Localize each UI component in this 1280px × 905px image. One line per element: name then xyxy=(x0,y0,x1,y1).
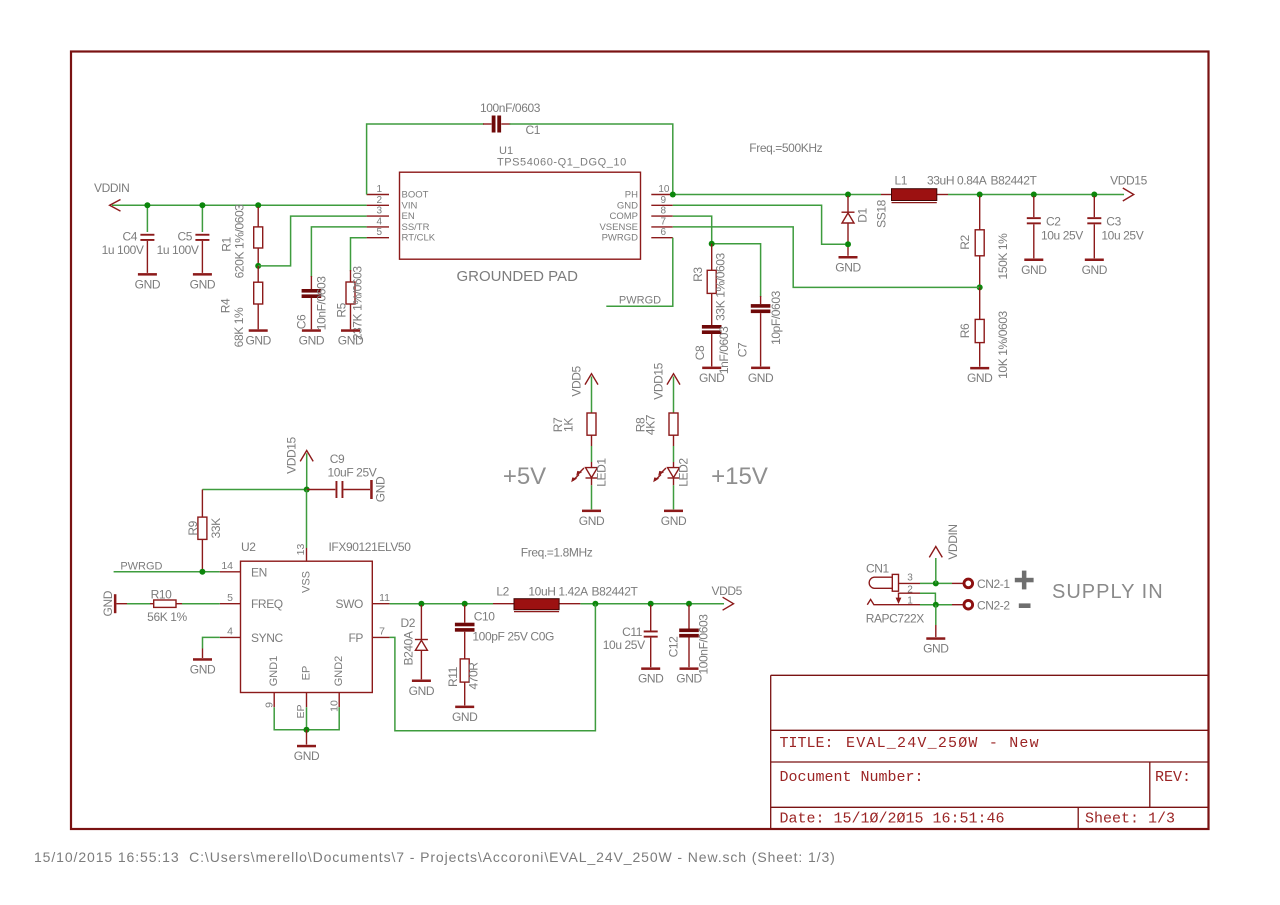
svg-text:CN2-2: CN2-2 xyxy=(977,598,1010,612)
diode D1 SS18 xyxy=(842,196,889,256)
U2 pin 11 SWO xyxy=(336,592,391,611)
svg-text:3: 3 xyxy=(907,573,913,584)
svg-text:SWO: SWO xyxy=(336,597,364,611)
resistor R8 xyxy=(633,413,678,468)
svg-text:R11: R11 xyxy=(446,666,460,687)
svg-text:PWRGD: PWRGD xyxy=(602,233,639,244)
svg-text:470R: 470R xyxy=(467,662,481,690)
ground D1 xyxy=(835,256,861,274)
svg-text:10uF 25V: 10uF 25V xyxy=(328,466,377,480)
U1 pin 7 VSENSE xyxy=(599,216,672,233)
svg-text:10pF/0603: 10pF/0603 xyxy=(769,290,783,345)
resistor R10 xyxy=(116,587,219,624)
svg-text:33uH 0.84A: 33uH 0.84A xyxy=(927,174,987,188)
svg-text:R6: R6 xyxy=(958,323,972,338)
ground EP xyxy=(294,730,320,763)
CN1 pin 1 xyxy=(867,596,920,607)
resistor R1 xyxy=(220,204,263,279)
svg-text:U1: U1 xyxy=(499,145,513,157)
resistor R2 xyxy=(958,196,1010,287)
ground D2 xyxy=(409,680,435,698)
svg-text:620K 1%/0603: 620K 1%/0603 xyxy=(233,204,247,279)
svg-text:GND: GND xyxy=(638,672,664,686)
svg-text:PWRGD: PWRGD xyxy=(120,560,162,572)
svg-text:GND: GND xyxy=(579,514,605,528)
svg-text:GND: GND xyxy=(338,334,364,348)
svg-text:PH: PH xyxy=(625,190,638,201)
svg-text:GND: GND xyxy=(1082,263,1108,277)
ground CN1 xyxy=(923,637,949,655)
minus symbol xyxy=(1019,603,1031,608)
svg-text:B240A: B240A xyxy=(402,631,416,665)
wire SYNC to GND xyxy=(203,637,220,648)
junction VDDIN dots xyxy=(144,202,261,208)
CN1 pin 2 with switch arrow xyxy=(896,584,920,604)
svg-text:GND: GND xyxy=(299,334,325,348)
svg-text:68K 1%: 68K 1% xyxy=(232,307,246,347)
svg-text:RT/CLK: RT/CLK xyxy=(402,233,436,244)
svg-text:9: 9 xyxy=(660,195,666,206)
svg-text:237K 1%/0603: 237K 1%/0603 xyxy=(351,266,365,341)
svg-text:FREQ: FREQ xyxy=(251,597,283,611)
svg-text:+5V: +5V xyxy=(503,463,546,490)
svg-text:VDD15: VDD15 xyxy=(651,362,665,399)
svg-text:U2: U2 xyxy=(241,540,256,554)
svg-text:5: 5 xyxy=(376,227,382,238)
svg-text:GND: GND xyxy=(923,642,949,656)
node VDDIN arrow CN1 xyxy=(929,524,960,583)
svg-text:GND: GND xyxy=(373,476,387,502)
svg-text:D2: D2 xyxy=(400,616,415,630)
svg-text:R2: R2 xyxy=(958,235,972,250)
border frame xyxy=(71,52,1209,830)
svg-text:10nF/0603: 10nF/0603 xyxy=(315,276,329,331)
capacitor C4 xyxy=(102,230,155,273)
svg-text:IFX90121ELV50: IFX90121ELV50 xyxy=(329,540,412,554)
svg-text:EVAL_24V_25ØW - New: EVAL_24V_25ØW - New xyxy=(846,735,1040,752)
U2 pin 4 SYNC xyxy=(220,626,284,645)
junction R9-EN node xyxy=(199,569,205,575)
node VDD15 arrow LED2 xyxy=(651,362,680,399)
resistor R7 xyxy=(551,413,596,468)
svg-text:56K 1%: 56K 1% xyxy=(147,610,187,624)
capacitor C1 xyxy=(480,101,541,137)
junction R2-R6 node xyxy=(977,284,983,290)
svg-text:10u 25V: 10u 25V xyxy=(603,638,645,652)
svg-text:C5: C5 xyxy=(177,230,192,244)
resistor R5 xyxy=(335,266,365,341)
wire GND pin9 to D1 xyxy=(673,205,845,244)
svg-text:GND: GND xyxy=(135,277,161,291)
wire SS/TR to C6 xyxy=(311,227,366,277)
svg-text:10u 25V: 10u 25V xyxy=(1041,228,1083,242)
svg-text:R5: R5 xyxy=(335,302,349,317)
svg-text:VDDIN: VDDIN xyxy=(94,181,129,195)
wire FP loop xyxy=(390,604,596,731)
svg-text:REV:: REV: xyxy=(1155,769,1191,786)
svg-text:33K: 33K xyxy=(209,518,223,539)
U1 pin 4 SS/TR xyxy=(367,216,430,233)
svg-text:EP: EP xyxy=(295,704,307,718)
svg-text:GND: GND xyxy=(190,663,216,677)
svg-text:10u 25V: 10u 25V xyxy=(1101,228,1143,242)
pad CN2-2 xyxy=(964,598,1010,612)
svg-text:150K 1%: 150K 1% xyxy=(996,233,1010,280)
U2 pin 5 FREQ xyxy=(220,592,283,611)
junction PH dots xyxy=(670,192,1098,198)
svg-text:Document Number:: Document Number: xyxy=(780,769,924,786)
svg-text:33K 1%/0603: 33K 1%/0603 xyxy=(713,252,727,320)
svg-text:VDD15: VDD15 xyxy=(1110,174,1147,188)
ground R4 xyxy=(245,329,271,347)
svg-text:C12: C12 xyxy=(666,636,680,658)
IC U2 IFX90121ELV50 body xyxy=(241,540,412,693)
wire C4 drop xyxy=(146,205,148,232)
svg-text:15/10/2015 16:55:13 C:\Users\: 15/10/2015 16:55:13 C:\Users\merello\Doc… xyxy=(34,849,836,865)
junction C9 node xyxy=(304,487,310,493)
svg-text:D1: D1 xyxy=(856,208,870,223)
capacitor C5 xyxy=(157,230,210,273)
svg-text:1u 100V: 1u 100V xyxy=(157,243,199,257)
svg-text:CN1: CN1 xyxy=(866,562,890,576)
junction SWO dots xyxy=(418,601,692,607)
ground C3 xyxy=(1082,259,1108,277)
resistor R6 xyxy=(958,287,1010,378)
svg-text:10K 1%/0603: 10K 1%/0603 xyxy=(996,310,1010,378)
svg-text:+15V: +15V xyxy=(711,463,768,490)
wire COMP net xyxy=(673,216,761,297)
LED LED1 xyxy=(571,458,608,510)
svg-text:GND2: GND2 xyxy=(333,656,345,687)
node VDD5 arrow LED1 xyxy=(569,365,598,396)
ground C2 xyxy=(1021,259,1047,277)
junction EP node xyxy=(304,727,310,733)
svg-text:FP: FP xyxy=(348,631,363,645)
svg-text:B82442T: B82442T xyxy=(991,174,1038,188)
svg-text:RAPC722X: RAPC722X xyxy=(866,611,925,625)
svg-text:SUPPLY IN: SUPPLY IN xyxy=(1052,581,1164,603)
capacitor C11 xyxy=(603,605,658,667)
U2 pin 13 VSS xyxy=(295,544,313,594)
U1 pin 10 PH xyxy=(625,184,673,201)
svg-text:VDD5: VDD5 xyxy=(711,584,742,598)
capacitor C8 xyxy=(693,325,731,374)
wire CN1 pin1 to CN2-2 xyxy=(920,604,952,606)
svg-text:C4: C4 xyxy=(122,230,137,244)
svg-text:2: 2 xyxy=(907,584,913,595)
U1 pin 2 VIN xyxy=(367,195,418,212)
ground LED1 xyxy=(579,510,605,528)
svg-text:GND: GND xyxy=(748,371,774,385)
node VDD15 arrow U2 xyxy=(284,436,313,473)
wire CN1 to GND xyxy=(935,605,937,637)
pad CN2-1 xyxy=(964,577,1010,591)
svg-text:SYNC: SYNC xyxy=(251,631,283,645)
resistor R11 xyxy=(446,659,481,706)
svg-text:GND: GND xyxy=(101,590,115,616)
capacitor C7 xyxy=(736,290,783,366)
plus symbol xyxy=(1015,571,1034,590)
wire VDD15 to R8 xyxy=(673,377,675,414)
svg-text:GND: GND xyxy=(835,260,861,274)
svg-text:GND: GND xyxy=(1021,263,1047,277)
svg-text:100nF/0603: 100nF/0603 xyxy=(697,614,711,675)
wire CN1 pin2 jog xyxy=(920,593,935,605)
svg-text:R10: R10 xyxy=(151,587,173,601)
svg-text:5: 5 xyxy=(227,592,233,604)
svg-text:C7: C7 xyxy=(736,342,750,357)
svg-text:C3: C3 xyxy=(1106,214,1121,228)
U1 pin 6 PWRGD xyxy=(602,227,673,244)
ground C6 xyxy=(299,329,325,347)
svg-text:LED2: LED2 xyxy=(677,458,691,487)
svg-text:C6: C6 xyxy=(294,314,308,329)
resistor R4 xyxy=(219,266,263,347)
wire PH rail xyxy=(673,194,1124,196)
svg-text:13: 13 xyxy=(295,544,307,556)
capacitor C12 xyxy=(666,605,710,675)
op-amp U1 TPS54060 body xyxy=(400,145,641,285)
svg-text:PWRGD: PWRGD xyxy=(619,294,661,306)
svg-text:Sheet: 1/3: Sheet: 1/3 xyxy=(1085,811,1175,828)
U2 pin 14 EN xyxy=(220,560,267,579)
svg-text:SS18: SS18 xyxy=(875,199,889,227)
wire BOOT to C1 xyxy=(367,124,484,195)
node VDD5 arrow right xyxy=(711,584,742,610)
svg-text:L2: L2 xyxy=(496,585,509,599)
svg-text:C10: C10 xyxy=(474,609,496,623)
resistor R9 xyxy=(186,490,223,572)
inductor L2 xyxy=(496,585,638,612)
capacitor C10 xyxy=(455,605,554,659)
ground R11 xyxy=(452,706,478,724)
U2 pin 9 GND1 xyxy=(264,656,281,708)
svg-text:SS/TR: SS/TR xyxy=(402,222,430,233)
ground GND rotated R10 xyxy=(101,590,117,616)
capacitor C3 xyxy=(1087,196,1143,258)
svg-text:VIN: VIN xyxy=(402,200,418,211)
wire VSENSE net xyxy=(673,227,980,288)
resistor R3 xyxy=(691,244,727,325)
wire EP net xyxy=(274,707,339,730)
junction R1-R4 node xyxy=(255,263,261,269)
svg-text:CN2-1: CN2-1 xyxy=(977,577,1010,591)
svg-text:C11: C11 xyxy=(622,625,643,639)
node VDD15 arrow right xyxy=(1110,174,1147,201)
svg-text:Date: 15/1Ø/2Ø15 16:51:46: Date: 15/1Ø/2Ø15 16:51:46 xyxy=(780,811,1005,828)
capacitor C6 xyxy=(294,276,328,331)
svg-text:10uH 1.42A: 10uH 1.42A xyxy=(528,585,588,599)
ground C12 xyxy=(676,667,702,685)
ground SYNC xyxy=(190,649,216,677)
svg-text:4: 4 xyxy=(227,626,233,638)
svg-text:TITLE:: TITLE: xyxy=(780,735,834,752)
svg-text:GND: GND xyxy=(617,200,638,211)
svg-text:3: 3 xyxy=(376,206,382,217)
ground R5 xyxy=(338,329,364,347)
svg-text:1u 100V: 1u 100V xyxy=(102,243,144,257)
svg-text:EN: EN xyxy=(251,565,267,579)
wire EN net xyxy=(258,216,366,266)
ground R6 xyxy=(967,367,993,385)
diode D2 B240A xyxy=(400,605,427,679)
svg-text:Freq.=500KHz: Freq.=500KHz xyxy=(749,141,822,155)
svg-text:GND: GND xyxy=(190,277,216,291)
wire PWRGD stub from pin6 xyxy=(606,238,673,307)
svg-text:GND: GND xyxy=(245,334,271,348)
svg-text:VDD15: VDD15 xyxy=(284,436,298,473)
ground C7 xyxy=(748,367,774,385)
svg-text:7: 7 xyxy=(660,216,666,227)
svg-text:C2: C2 xyxy=(1046,214,1061,228)
svg-text:Freq.=1.8MHz: Freq.=1.8MHz xyxy=(521,545,593,559)
svg-text:L1: L1 xyxy=(895,174,908,188)
wire C1 to PH xyxy=(510,124,673,195)
svg-text:8: 8 xyxy=(660,206,666,217)
U1 pin 3 EN xyxy=(367,206,415,223)
svg-text:10: 10 xyxy=(658,184,670,195)
svg-text:VDDIN: VDDIN xyxy=(946,524,960,559)
svg-text:BOOT: BOOT xyxy=(402,190,429,201)
LED LED2 xyxy=(653,458,690,510)
svg-text:GND: GND xyxy=(409,684,435,698)
svg-text:2: 2 xyxy=(376,195,382,206)
CN1 pin 3 xyxy=(899,573,921,584)
svg-text:VSS: VSS xyxy=(301,571,313,593)
svg-text:B82442T: B82442T xyxy=(592,585,639,599)
svg-text:11: 11 xyxy=(379,592,390,604)
svg-text:GND: GND xyxy=(699,371,725,385)
svg-text:VDD5: VDD5 xyxy=(569,365,583,396)
U1 pin 5 RT/CLK xyxy=(367,227,436,244)
wire VDD5 to R7 xyxy=(591,377,593,414)
ground C4 xyxy=(135,273,161,291)
svg-text:COMP: COMP xyxy=(610,211,639,222)
svg-text:LED1: LED1 xyxy=(595,458,609,487)
wire SWO rail xyxy=(390,603,724,605)
wire VDD15 node to C9/R9 xyxy=(202,453,306,489)
svg-text:7: 7 xyxy=(379,626,385,638)
ground LED2 xyxy=(661,510,687,528)
svg-text:100nF/0603: 100nF/0603 xyxy=(480,101,541,115)
svg-text:GND1: GND1 xyxy=(268,656,280,687)
svg-text:6: 6 xyxy=(660,227,666,238)
wire CN1 pin3 to CN2-1 xyxy=(920,582,952,584)
svg-text:R4: R4 xyxy=(219,298,233,313)
svg-text:TPS54060-Q1_DGQ_10: TPS54060-Q1_DGQ_10 xyxy=(497,157,627,169)
svg-text:GND: GND xyxy=(676,672,702,686)
ground C11 xyxy=(638,667,664,685)
U1 pin 9 GND xyxy=(617,195,673,212)
inductor L1 xyxy=(892,174,1038,203)
wire VSS to C9 node xyxy=(306,490,308,549)
U2 pin EP xyxy=(295,666,313,719)
svg-text:4: 4 xyxy=(376,216,382,227)
svg-text:GND: GND xyxy=(661,514,687,528)
svg-text:R3: R3 xyxy=(691,267,705,282)
ground C8 xyxy=(699,367,725,385)
ground C9 rotated xyxy=(370,476,387,502)
svg-text:C1: C1 xyxy=(526,123,541,137)
title block xyxy=(771,675,1208,829)
junction COMP node xyxy=(709,241,715,247)
svg-text:EP: EP xyxy=(301,666,313,681)
wire VDDIN rail xyxy=(112,204,367,206)
capacitor C9 xyxy=(307,452,377,498)
wire RT/CLK to R5 xyxy=(351,238,367,272)
svg-text:C9: C9 xyxy=(330,452,345,466)
U1 pin 1 BOOT xyxy=(367,184,429,201)
svg-text:GROUNDED PAD: GROUNDED PAD xyxy=(457,268,579,285)
U2 pin 7 FP xyxy=(348,626,389,645)
capacitor C2 xyxy=(1027,196,1084,258)
U2 pin 10 GND2 xyxy=(329,656,346,712)
svg-text:GND: GND xyxy=(452,710,478,724)
junction D1 bottom xyxy=(845,241,851,247)
svg-text:9: 9 xyxy=(264,702,276,708)
svg-text:R9: R9 xyxy=(186,520,200,535)
svg-text:GND: GND xyxy=(294,749,320,763)
svg-text:C8: C8 xyxy=(693,345,707,360)
wire C5 drop xyxy=(201,205,203,232)
svg-text:4K7: 4K7 xyxy=(644,414,658,435)
U1 pin 8 COMP xyxy=(610,206,673,223)
svg-text:R1: R1 xyxy=(220,237,234,252)
svg-text:100pF 25V C0G: 100pF 25V C0G xyxy=(472,630,554,644)
connector CN1 RAPC722X xyxy=(866,562,925,626)
svg-text:EN: EN xyxy=(402,211,415,222)
junction CN1 dots xyxy=(933,580,939,607)
svg-text:VSENSE: VSENSE xyxy=(599,222,638,233)
svg-text:1: 1 xyxy=(376,184,382,195)
svg-text:14: 14 xyxy=(221,560,233,572)
svg-text:1K: 1K xyxy=(561,418,575,432)
svg-text:GND: GND xyxy=(967,371,993,385)
ground C5 xyxy=(190,273,216,291)
wire PWRGD net left xyxy=(114,560,220,572)
node VDDIN arrow xyxy=(94,181,129,211)
svg-text:1: 1 xyxy=(907,596,913,607)
